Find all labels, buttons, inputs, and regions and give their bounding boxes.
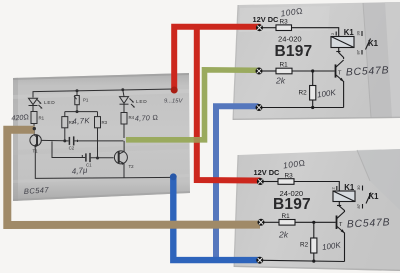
svg-text:R3: R3 <box>280 19 289 26</box>
relay contact K1 switch module2 <box>362 186 364 191</box>
svg-text:4,7μ: 4,7μ <box>71 166 88 176</box>
panel left edge shading <box>13 78 18 201</box>
svg-text:9...15V: 9...15V <box>164 99 184 105</box>
relay K1 coil <box>331 37 354 48</box>
svg-text:420Ω: 420Ω <box>11 112 29 122</box>
relay pin tick bottom module2 <box>337 205 341 207</box>
node blue endpoint dot on panel <box>170 173 177 180</box>
node C1 R3 junction <box>96 157 99 160</box>
svg-text:T: T <box>339 222 343 228</box>
wire 12V lead to R3 <box>262 27 276 29</box>
green red crossing blend <box>194 137 200 143</box>
wire R1 to base <box>292 70 335 72</box>
svg-text:C2: C2 <box>69 146 75 151</box>
resistor R1 module2 <box>279 220 295 226</box>
wire red branch down to module2 12V <box>197 27 261 181</box>
resistor R2 module1 <box>312 71 314 86</box>
node P1 bus junction <box>76 110 79 113</box>
wire blue from module1 ground down to module2 ground <box>216 106 259 260</box>
svg-text:R2: R2 <box>299 90 308 97</box>
wire emitter ground rail module2 <box>263 260 345 261</box>
terminal ground module1 <box>256 104 263 111</box>
panel texture streaks <box>13 89 189 99</box>
svg-text:12V DC: 12V DC <box>254 168 281 177</box>
svg-text:K1: K1 <box>369 192 380 201</box>
LED D2 <box>120 90 136 113</box>
svg-text:R3: R3 <box>285 173 294 180</box>
resistor R2 <box>62 112 68 141</box>
wire 12V lead to R3 module2 <box>263 181 278 183</box>
wire relay to collector module2 <box>339 202 344 213</box>
node red endpoint dot on panel <box>171 87 178 94</box>
resistor R3 module2 <box>278 179 294 185</box>
transistor T1 <box>30 128 64 148</box>
panel top edge shadow <box>13 73 189 80</box>
terminal 12V module1 <box>256 24 263 31</box>
svg-text:87: 87 <box>356 49 361 54</box>
relay pin tick top module2 <box>336 186 338 190</box>
wire brown from panel R1 node to module2 input <box>7 130 260 225</box>
svg-text:87: 87 <box>356 203 361 208</box>
svg-text:R1: R1 <box>39 116 45 121</box>
node emitter junction module1 <box>311 106 314 109</box>
wire blue from panel output to module2 ground <box>173 177 261 260</box>
svg-text:K1: K1 <box>344 28 355 37</box>
svg-text:4,7K: 4,7K <box>72 116 90 126</box>
svg-text:R3: R3 <box>102 120 108 125</box>
terminal input module2 <box>258 219 265 226</box>
wire R2 R3 top bus <box>65 111 98 113</box>
svg-text:30: 30 <box>356 185 361 190</box>
wire top supply rail <box>33 89 174 98</box>
svg-text:R2: R2 <box>300 242 309 249</box>
paper 1 left edge line <box>233 5 238 120</box>
wire relay to collector <box>339 48 344 60</box>
node brown junction dot on panel <box>33 127 36 130</box>
relay pin tick bottom <box>336 51 340 53</box>
relay K1 coil module2 <box>333 191 355 202</box>
svg-text:K1: K1 <box>368 39 379 48</box>
wire input lead to R1 <box>262 70 276 72</box>
svg-text:4,70 Ω: 4,70 Ω <box>135 113 159 123</box>
capacitor C2 <box>65 136 124 145</box>
svg-text:2k: 2k <box>278 230 289 240</box>
wire red supply from panel to module1 12V <box>174 27 260 90</box>
svg-text:12V DC: 12V DC <box>253 15 280 24</box>
wire R3 to relay <box>292 28 339 37</box>
resistor R3 module1 <box>276 25 292 31</box>
svg-text:T1: T1 <box>33 149 39 154</box>
relay pin tick top <box>335 32 337 36</box>
terminal 12V module2 <box>257 178 264 185</box>
svg-text:T2: T2 <box>129 164 135 169</box>
resistor R1 module1 <box>276 68 292 74</box>
node T1 base junction <box>63 139 66 142</box>
transistor T2 <box>114 141 127 178</box>
paper 2 crease shading <box>357 149 400 210</box>
terminal ground module2 <box>256 257 263 264</box>
svg-text:R1: R1 <box>280 62 289 69</box>
svg-text:T: T <box>338 71 342 77</box>
wire bottom rail <box>35 149 173 179</box>
svg-text:B197: B197 <box>273 196 311 213</box>
transistor T module2 <box>336 216 338 230</box>
svg-text:LED: LED <box>44 100 55 106</box>
svg-text:P1: P1 <box>83 98 89 103</box>
wire green from panel T2 collector to module1 input <box>126 70 260 140</box>
svg-text:2k: 2k <box>275 76 286 86</box>
terminal input module1 <box>256 68 263 75</box>
resistor R2 module2 <box>313 222 315 238</box>
wire input lead to R1 module2 <box>264 221 279 223</box>
left schematic paper panel <box>13 73 190 201</box>
svg-text:K1: K1 <box>344 183 355 192</box>
resistor R4 <box>121 113 127 139</box>
paper 1 crease shading <box>363 2 400 118</box>
svg-text:R1: R1 <box>282 213 291 220</box>
LED D1 <box>29 98 43 111</box>
svg-text:BC547B: BC547B <box>347 217 391 230</box>
panel bottom edge shadow <box>13 191 190 201</box>
node base junction module1 <box>311 69 314 72</box>
svg-text:BC547: BC547 <box>24 185 50 196</box>
paper 1 bright area <box>239 6 330 32</box>
capacitor C1 <box>52 141 114 162</box>
svg-text:30: 30 <box>356 30 361 35</box>
resistor R1 <box>31 112 37 134</box>
wire emitter ground rail <box>262 107 344 109</box>
node emitter junction module2 <box>312 260 315 263</box>
relay module paper 1 <box>233 2 400 120</box>
svg-text:BC547B: BC547B <box>346 65 390 78</box>
resistor R3 <box>95 112 101 159</box>
node base junction module2 <box>312 221 315 224</box>
node P1 top rail junction <box>76 89 79 92</box>
wire R1 to base module2 <box>295 221 336 223</box>
wire R3 to relay module2 <box>294 182 339 192</box>
relay module paper 2 <box>234 149 400 271</box>
paper 2 bottom edge shadow <box>234 266 400 271</box>
svg-text:B197: B197 <box>275 43 313 60</box>
transistor T module1 <box>335 64 337 77</box>
paper 2 left edge line <box>234 155 238 267</box>
relay contact K1 switch <box>361 31 363 36</box>
paper 1 bottom edge shadow <box>233 117 400 120</box>
potentiometer P1 <box>74 91 79 112</box>
node R1-T1 junction <box>33 127 36 130</box>
node D2 rail junction <box>121 88 124 91</box>
svg-text:LED: LED <box>136 99 147 105</box>
